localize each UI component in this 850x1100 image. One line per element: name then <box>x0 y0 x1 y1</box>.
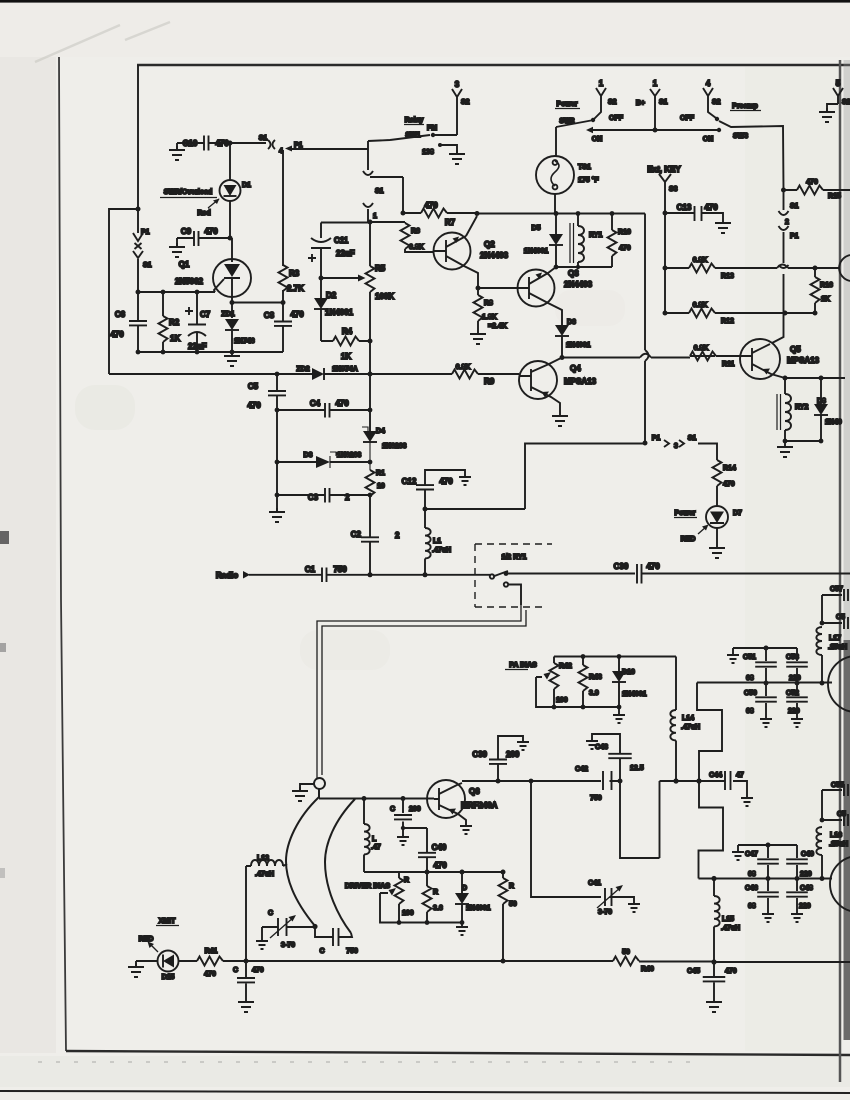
resistor R41 470 <box>179 960 247 962</box>
svg-text:3: 3 <box>455 80 460 89</box>
capacitor C42 750 <box>531 780 620 782</box>
svg-text:C51: C51 <box>743 654 756 661</box>
svg-text:1N746: 1N746 <box>234 338 255 345</box>
svg-text:3.9: 3.9 <box>589 690 599 697</box>
svg-text:C50: C50 <box>744 690 757 697</box>
svg-text:750: 750 <box>346 948 358 955</box>
svg-text:OFF: OFF <box>680 115 695 122</box>
wiper arrow into R5 <box>321 277 360 279</box>
wire: keying node to C12 rail <box>425 444 645 510</box>
resistor R14 470 <box>713 460 722 486</box>
svg-text:2N4403: 2N4403 <box>480 251 509 260</box>
svg-text:R13: R13 <box>721 273 734 280</box>
ground tap on coax <box>300 784 314 790</box>
svg-text:1N4001: 1N4001 <box>466 905 491 912</box>
svg-text:S1: S1 <box>790 203 799 210</box>
svg-text:470: 470 <box>619 245 631 252</box>
svg-text:470: 470 <box>704 203 718 212</box>
relay contact 1/2 RY1 (dashed box) <box>475 544 552 607</box>
lamp TS1 175F <box>555 127 557 156</box>
capacitor C7 (22uF) <box>188 292 206 352</box>
svg-text:R5: R5 <box>375 264 386 273</box>
capacitor C13 <box>665 213 723 219</box>
trimmer C 3-70 (input) <box>262 926 315 928</box>
svg-text:.47uH: .47uH <box>432 547 451 554</box>
frame bottom border <box>66 1051 850 1055</box>
rail y=213.5 <box>477 213 645 215</box>
svg-text:ON: ON <box>703 136 714 143</box>
C57/C56 stubs at right edge <box>820 621 825 626</box>
svg-text:3.6: 3.6 <box>433 905 443 912</box>
svg-text:S2: S2 <box>712 99 721 106</box>
svg-text:MPSA13: MPSA13 <box>564 377 597 386</box>
svg-text:2N4403: 2N4403 <box>564 280 593 289</box>
svg-text:Q5: Q5 <box>790 345 801 354</box>
svg-text:1N6263: 1N6263 <box>337 452 362 459</box>
capacitor C39 200 <box>498 736 523 781</box>
rail y=878.5 <box>699 878 833 880</box>
svg-text:R14: R14 <box>723 465 736 472</box>
svg-text:D4: D4 <box>376 428 385 435</box>
svg-text:P1: P1 <box>141 229 150 236</box>
svg-text:L17: L17 <box>829 635 841 642</box>
svg-text:TS1: TS1 <box>578 164 591 171</box>
svg-text:S1: S1 <box>259 135 268 142</box>
svg-text:R15: R15 <box>828 193 841 200</box>
svg-text:P1: P1 <box>652 435 661 442</box>
svg-text:C42: C42 <box>575 766 588 773</box>
diode D4 1N6263 <box>363 431 377 442</box>
svg-text:1: 1 <box>653 79 658 88</box>
svg-text:R9: R9 <box>484 377 495 386</box>
svg-text:6.8K: 6.8K <box>694 345 709 352</box>
svg-text:R40: R40 <box>641 966 654 973</box>
capacitor C 470 (xmit) <box>245 961 247 998</box>
svg-text:C9: C9 <box>181 227 192 236</box>
svg-text:R43: R43 <box>589 674 602 681</box>
diode D10 1N4001 <box>612 671 626 682</box>
svg-text:C30: C30 <box>614 562 629 571</box>
svg-text:2.7K: 2.7K <box>287 284 304 293</box>
coax feed down-left <box>317 605 526 779</box>
svg-text:C6: C6 <box>115 310 126 319</box>
svg-text:C5: C5 <box>248 382 259 391</box>
svg-text:ZD2: ZD2 <box>296 366 309 373</box>
svg-text:S2: S2 <box>842 99 850 106</box>
inductor L14 .47uH <box>675 657 677 711</box>
LED D1 <box>220 180 241 201</box>
svg-text:3: 3 <box>674 443 678 450</box>
svg-text:R6: R6 <box>411 228 420 235</box>
svg-text:R12: R12 <box>721 318 734 325</box>
svg-text:Q4: Q4 <box>570 364 581 373</box>
svg-text:C40: C40 <box>432 843 447 852</box>
resistor R8 1.8K <box>477 288 479 330</box>
svg-text:R16: R16 <box>820 282 833 289</box>
svg-text:1N6263: 1N6263 <box>382 443 407 450</box>
potentiometer R 100 (driver bias) <box>398 872 400 923</box>
svg-text:68: 68 <box>748 871 756 878</box>
wire: frame feed left <box>137 65 139 209</box>
resistor R2 <box>162 292 164 352</box>
svg-text:C49: C49 <box>801 851 814 858</box>
svg-text:D7: D7 <box>733 510 742 517</box>
dotted separator line <box>38 1061 700 1063</box>
transistor stub at right edge (x850) <box>839 255 850 281</box>
svg-text:50: 50 <box>509 901 517 908</box>
svg-text:6.8K: 6.8K <box>409 244 424 251</box>
output transistor (upper, cut at right edge) <box>828 656 850 712</box>
preamp feed from SW3 <box>781 188 786 193</box>
svg-text:C12: C12 <box>402 477 417 486</box>
svg-text:Q3: Q3 <box>568 269 579 278</box>
frame top border <box>137 64 850 66</box>
svg-text:1: 1 <box>373 213 377 220</box>
svg-text:PA BIAS: PA BIAS <box>509 662 537 669</box>
wire: left branch to x=109 <box>109 209 138 374</box>
svg-text:.47: .47 <box>371 844 381 851</box>
svg-text:C39: C39 <box>472 750 487 759</box>
node (370,222) <box>368 220 373 225</box>
svg-text:SWR/Overload: SWR/Overload <box>164 189 213 196</box>
ground under D7 <box>709 544 725 558</box>
transistor Q4 MPSA13 <box>519 361 557 399</box>
resistor R15 470 <box>784 189 850 191</box>
svg-text:Q6: Q6 <box>469 787 480 796</box>
ground left of D15 <box>135 961 137 966</box>
capacitor C45 470 <box>713 962 715 998</box>
resistor R 50 <box>502 872 504 961</box>
capacitor C12 470 <box>425 470 465 509</box>
driver bias bottom rail <box>380 922 462 924</box>
svg-text:47: 47 <box>736 772 744 779</box>
svg-text:RY2: RY2 <box>795 404 808 411</box>
svg-text:470: 470 <box>646 562 660 571</box>
capacitor C9 <box>177 237 230 239</box>
resistor R6 6.8K <box>370 222 434 252</box>
svg-text:Relay: Relay <box>405 117 424 124</box>
wire: link to R7 node <box>370 177 403 213</box>
svg-text:S1: S1 <box>688 435 697 442</box>
svg-text:SW3: SW3 <box>733 133 748 140</box>
diode D8 1N4001 <box>820 378 822 441</box>
svg-text:ZD1: ZD1 <box>221 311 234 318</box>
svg-text:.15uH: .15uH <box>828 644 847 651</box>
rail y=267 relay node <box>556 266 612 268</box>
svg-text:C46: C46 <box>745 885 758 892</box>
capacitor C53 220 <box>796 648 798 683</box>
svg-text:MPSA13: MPSA13 <box>787 356 820 365</box>
svg-text:RED: RED <box>139 936 154 943</box>
transformer arc T (left crescent) <box>286 789 319 926</box>
svg-text:C44: C44 <box>709 772 722 779</box>
svg-text:6.8K: 6.8K <box>456 364 471 371</box>
svg-text:C4: C4 <box>310 399 321 408</box>
inductor L15 .47uH <box>713 879 715 896</box>
svg-text:S3: S3 <box>669 186 678 193</box>
capacitor C6 <box>137 292 139 352</box>
svg-text:100: 100 <box>402 910 414 917</box>
svg-text:220: 220 <box>789 675 801 682</box>
svg-text:470: 470 <box>725 968 737 975</box>
svg-text:470: 470 <box>204 227 218 236</box>
svg-text:D: D <box>462 885 467 892</box>
svg-text:Q1: Q1 <box>179 260 190 269</box>
rail y=781 with C44 <box>660 781 748 795</box>
svg-text:1N4001: 1N4001 <box>524 248 549 255</box>
svg-text:.47uH: .47uH <box>681 724 700 731</box>
ground rail under RY2 <box>785 440 821 442</box>
svg-text:R7: R7 <box>445 218 456 227</box>
relay coil RY2 <box>784 378 786 394</box>
relay coil RY1 <box>570 223 574 263</box>
connector S1/2/P1 on x=783.5 <box>779 190 789 313</box>
svg-text:470: 470 <box>439 477 453 486</box>
svg-text:FM: FM <box>427 125 437 132</box>
feed rail y=845 <box>738 845 797 849</box>
rail y=798 (Q6 base) <box>319 798 434 800</box>
rail y=357.5 (Q4 collector / R11) <box>562 357 690 359</box>
resistor R9 6.8K <box>452 370 478 379</box>
svg-text:1K: 1K <box>170 334 180 343</box>
ground for C9 <box>176 238 178 247</box>
svg-text:L1: L1 <box>433 538 441 545</box>
bias bottom rail <box>538 706 619 708</box>
svg-text:MRF240A: MRF240A <box>461 801 498 810</box>
svg-text:2N5062: 2N5062 <box>175 277 204 286</box>
ground under R8 <box>470 330 486 344</box>
node: junction (138,292) <box>136 290 141 295</box>
bias top rail <box>554 657 676 672</box>
svg-text:B+: B+ <box>636 100 645 107</box>
C51/C53 feed rail y=648 <box>733 648 797 652</box>
capacitor C3 <box>277 494 370 496</box>
svg-text:R2: R2 <box>169 318 180 327</box>
LED D15 <box>136 960 158 962</box>
capacitor C 750 (output of T) <box>315 927 352 938</box>
svg-text:68: 68 <box>746 708 754 715</box>
svg-text:C11: C11 <box>334 236 349 245</box>
svg-text:D10: D10 <box>622 669 635 676</box>
resistor R11 6.8K <box>690 355 715 357</box>
svg-text:C52: C52 <box>786 690 799 697</box>
resistor R40 50 <box>613 957 639 966</box>
top rail y=682.5 <box>697 682 832 684</box>
capacitor C4 <box>277 409 370 411</box>
wire: C11 top to R5 top <box>321 222 370 224</box>
wire: x=277 column / x=370 column <box>277 374 370 495</box>
resistor R12 6.8K <box>665 312 815 314</box>
svg-text:L14: L14 <box>682 715 694 722</box>
svg-text:Q2: Q2 <box>484 240 495 249</box>
capacitor C48 220 <box>796 879 798 912</box>
svg-text:470: 470 <box>290 310 304 319</box>
capacitor C30 470 <box>637 564 642 584</box>
svg-text:.47uH: .47uH <box>721 925 740 932</box>
svg-text:68: 68 <box>746 675 754 682</box>
ground under x=277 <box>276 495 278 512</box>
resistor R4 1K <box>321 340 370 342</box>
svg-text:470: 470 <box>424 201 438 210</box>
svg-text:470: 470 <box>204 971 216 978</box>
transformer arc T (right crescent) <box>325 799 355 933</box>
svg-text:470: 470 <box>215 139 229 148</box>
svg-text:C3: C3 <box>308 493 319 502</box>
svg-text:S1: S1 <box>143 262 152 269</box>
capacitor C2 <box>361 537 379 541</box>
wire: Q1 cathode to C8/R3 <box>232 302 283 304</box>
svg-text:4: 4 <box>706 79 711 88</box>
capacitor C52 220 <box>796 683 798 716</box>
capacitor C1 750 <box>322 568 327 583</box>
svg-text:R8: R8 <box>484 300 493 307</box>
svg-text:1N4001: 1N4001 <box>566 342 591 349</box>
svg-text:R: R <box>404 877 409 884</box>
svg-text:1K: 1K <box>821 296 830 303</box>
svg-text:L13: L13 <box>257 855 269 862</box>
resistor R43 3.9 <box>579 665 588 691</box>
svg-text:C13: C13 <box>677 203 692 212</box>
capacitor C11 22uF <box>311 223 331 279</box>
svg-text:R3: R3 <box>289 269 300 278</box>
inductor L16 .15uH <box>821 855 823 879</box>
svg-text:C57: C57 <box>830 586 843 593</box>
svg-text:2: 2 <box>395 531 400 540</box>
svg-text:R4: R4 <box>342 327 353 336</box>
Q6 collector rail y=781 <box>462 780 531 782</box>
svg-text:6.8K: 6.8K <box>693 257 708 264</box>
Q6 collector drop to C41 <box>531 781 601 897</box>
trimmer C41 3-70 <box>605 888 634 906</box>
svg-text:4: 4 <box>279 148 283 155</box>
svg-text:R42: R42 <box>559 663 572 670</box>
capacitor C51 68 <box>765 648 767 683</box>
svg-text:1N40: 1N40 <box>825 419 842 426</box>
svg-text:22uF: 22uF <box>336 249 355 258</box>
ground under ZD1 <box>224 352 240 366</box>
svg-text:470: 470 <box>335 399 349 408</box>
svg-text:.47uH: .47uH <box>255 871 274 878</box>
svg-text:L15: L15 <box>722 916 734 923</box>
bottom page rule <box>0 1091 850 1093</box>
capacitor C8 <box>282 303 284 353</box>
connector P1 3 S1 <box>643 441 648 446</box>
svg-text:C41: C41 <box>588 880 601 887</box>
svg-text:C8: C8 <box>264 311 275 320</box>
svg-text:C7: C7 <box>200 310 211 319</box>
svg-text:D8: D8 <box>817 398 826 405</box>
svg-text:C: C <box>319 948 324 955</box>
svg-text:22uF: 22uF <box>188 342 207 351</box>
diode D6 1N4001 <box>555 325 569 336</box>
svg-text:C5: C5 <box>837 811 846 818</box>
svg-text:Power: Power <box>556 101 577 108</box>
svg-text:D1: D1 <box>242 182 251 189</box>
svg-text:C53: C53 <box>786 654 799 661</box>
svg-text:Ext, KEY: Ext, KEY <box>647 165 681 174</box>
svg-text:R10: R10 <box>618 229 631 236</box>
inductor L1 .47uH <box>424 509 426 528</box>
svg-text:1/2 RY1: 1/2 RY1 <box>501 554 526 561</box>
svg-text:OFF: OFF <box>609 115 624 122</box>
svg-text:470: 470 <box>110 330 124 339</box>
svg-text:S1: S1 <box>375 188 384 195</box>
emitter rail y=378 <box>785 377 845 379</box>
driver bias rail y=872 <box>364 871 503 873</box>
svg-text:470: 470 <box>252 967 264 974</box>
right page edge dark band <box>839 60 842 1082</box>
svg-text:200: 200 <box>506 750 520 759</box>
svg-text:C2: C2 <box>351 530 362 539</box>
connector P1/S1 on x=138 <box>133 209 143 292</box>
svg-text:D3: D3 <box>304 452 313 459</box>
svg-text:C45: C45 <box>687 968 700 975</box>
page top black bar <box>0 0 850 3</box>
svg-text:L16: L16 <box>830 832 842 839</box>
svg-text:D2: D2 <box>326 291 337 300</box>
svg-text:Radio: Radio <box>216 571 238 580</box>
ground for SW1 throw <box>449 150 465 164</box>
svg-text:RY1: RY1 <box>589 232 602 239</box>
svg-text:D5: D5 <box>532 225 541 232</box>
svg-text:C: C <box>233 967 238 974</box>
resistor R10 470 <box>611 214 613 268</box>
svg-text:138: 138 <box>422 149 434 156</box>
svg-text:C10: C10 <box>183 139 198 148</box>
capacitor C49 220 <box>796 845 798 879</box>
svg-text:750: 750 <box>333 565 347 574</box>
inductor L.47 <box>363 799 365 825</box>
svg-text:750: 750 <box>590 795 602 802</box>
svg-text:C5: C5 <box>836 614 845 621</box>
transistor Q2 2N4403 <box>434 233 471 270</box>
capacitor C 200 (base bypass) <box>403 799 427 829</box>
wire: rail y=292 <box>138 291 215 293</box>
svg-text:12.5: 12.5 <box>630 765 644 772</box>
svg-text:5: 5 <box>836 79 841 88</box>
svg-text:C: C <box>390 806 395 813</box>
wire: rail y=352 <box>138 351 283 353</box>
transistor Q6 MRF240A <box>427 780 465 818</box>
svg-text:Red: Red <box>197 210 210 217</box>
diode D 1N4001 (driver) <box>461 872 463 923</box>
node: arc1 bottom <box>312 924 317 929</box>
svg-text:220: 220 <box>788 708 800 715</box>
wire: D1 column <box>228 236 233 241</box>
svg-text:3-70: 3-70 <box>281 942 295 949</box>
capacitor C50 68 <box>765 683 767 716</box>
svg-text:D15: D15 <box>162 974 175 981</box>
svg-text:50: 50 <box>622 949 630 956</box>
ground for C10 <box>176 143 178 150</box>
svg-text:S2: S2 <box>461 99 470 106</box>
svg-text:470: 470 <box>247 401 261 410</box>
transistor Q3 2N4403 <box>518 270 555 307</box>
LED D7 <box>706 506 728 528</box>
svg-text:R1: R1 <box>376 470 385 477</box>
resistor R13 6.8K <box>665 267 815 269</box>
stripline step A (up) <box>697 683 722 782</box>
svg-text:S1: S1 <box>659 99 668 106</box>
transistor Q5 MPSA13 <box>772 313 784 343</box>
ON rail y=130 <box>592 129 719 131</box>
stripline step B (down) <box>699 781 724 879</box>
svg-text:=2.4K: =2.4K <box>488 323 507 330</box>
diode D5 1N4001 <box>555 214 557 268</box>
svg-text:C43: C43 <box>595 744 608 751</box>
svg-text:1N974A: 1N974A <box>332 366 358 373</box>
svg-text:C1: C1 <box>305 565 316 574</box>
